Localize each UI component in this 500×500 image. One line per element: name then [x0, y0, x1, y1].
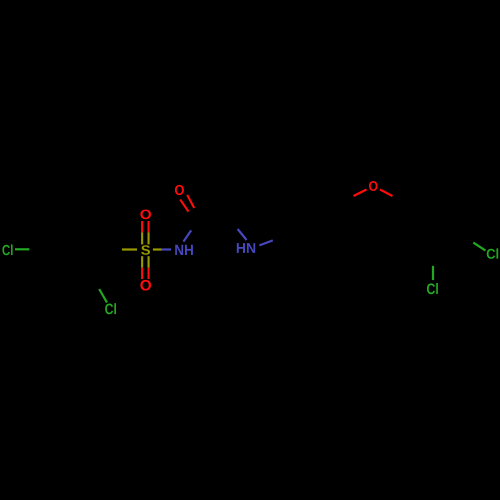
double bond S=O2 line b red half	[148, 268, 150, 280]
double bond S=O2 line a red half	[141, 268, 143, 280]
bond N2-C7a nitrogen half	[259, 240, 272, 245]
nitrogen N2 indoline HN	[237, 243, 255, 253]
double bond S=O1 line a sulfur half	[141, 232, 143, 244]
chlorine Cl3 (right)	[487, 248, 499, 258]
double bond S=O1 line a red half	[141, 221, 143, 232]
oxygen O3 carbonyl	[175, 185, 184, 195]
bond C3'-Cl4 stub	[432, 266, 434, 280]
bond C5-O4 oxygen half (left)	[354, 190, 367, 197]
bond S-N nitrogen half	[162, 248, 172, 250]
bond C4-Cl1 stub	[15, 248, 29, 250]
oxygen O2 (sulfonyl bottom)	[140, 280, 151, 291]
oxygen O4 ether	[369, 181, 378, 191]
bond C1-S stub	[122, 248, 137, 250]
sulfur S	[141, 245, 150, 255]
bond O4-C1' oxygen half (right)	[380, 190, 393, 197]
chlorine Cl2 (bottom left)	[105, 303, 116, 314]
double bond S=O1 line b sulfur half	[148, 232, 150, 244]
bond C2-Cl2 stub	[99, 289, 107, 303]
double bond C=O3 stroke b	[180, 200, 188, 212]
nitrogen N1 sulfonamide NH	[175, 245, 193, 255]
bond N1-C(=O) nitrogen half	[183, 230, 191, 241]
bond C4'-Cl3 stub	[473, 243, 485, 251]
bond S-N sulfur half	[153, 248, 162, 250]
double bond S=O1 line b red half	[148, 221, 150, 232]
bond N2-C2 nitrogen half	[238, 229, 247, 240]
double bond C=O3 stroke a	[187, 195, 194, 208]
double bond S=O2 line a sulfur half	[141, 256, 143, 267]
chlorine Cl4 (bottom right)	[427, 283, 438, 294]
chlorine Cl1 (left)	[2, 244, 12, 255]
double bond S=O2 line b sulfur half	[148, 256, 150, 267]
oxygen O1 (sulfonyl top)	[140, 210, 151, 220]
